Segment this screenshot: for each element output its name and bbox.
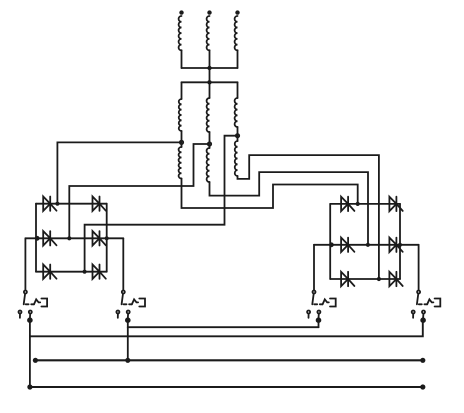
- thyristor VS12: [389, 272, 396, 286]
- switch S3 linkage chevron: [323, 299, 329, 304]
- wire bus1 switch S1 to switch S4: [30, 320, 423, 336]
- switch S4 contact junction dot: [421, 318, 425, 322]
- primary winding LB terminal dot: [207, 10, 211, 14]
- switch S2 actuator bracket: [139, 299, 145, 307]
- switch S1 linkage dashed: [26, 303, 34, 305]
- secondary winding W1 upper half: [181, 82, 183, 99]
- thyristor VS11: [341, 272, 348, 286]
- switch S4 linkage dashed: [419, 303, 427, 305]
- switch S1 left fixed contact: [19, 311, 22, 314]
- switch S2 right fixed contact: [127, 311, 130, 314]
- left bridge negative rail: [35, 204, 37, 272]
- wire left bridge row1: [36, 203, 107, 205]
- wire W1 tap to left bridge row1: [57, 142, 181, 203]
- bus 2: [35, 359, 422, 361]
- wire W1 bottom to right bridge row1: [182, 179, 358, 209]
- node primary star point: [207, 66, 211, 70]
- switch S3 right fixed contact: [317, 311, 320, 314]
- switch S2 linkage chevron: [132, 299, 138, 304]
- wire left bridge output to switch S1: [24, 238, 26, 289]
- secondary winding W2 lower half: [209, 146, 211, 148]
- primary winding LC terminal dot: [235, 10, 239, 14]
- switch S1 actuator bracket: [41, 299, 47, 307]
- switch S4 left fixed contact: [412, 311, 415, 314]
- secondary winding W3 lower half: [237, 137, 239, 141]
- primary winding LB lead wire: [209, 50, 211, 68]
- node bus3 left terminal: [27, 384, 32, 389]
- switch S2 blade: [122, 294, 123, 305]
- switch S2 left fixed contact: [116, 311, 119, 314]
- switch S4 right fixed contact: [422, 311, 425, 314]
- node secondary W3 center tap: [236, 134, 239, 137]
- wire switch S3 stub: [318, 320, 320, 327]
- node bus3 right terminal: [420, 384, 425, 389]
- wire W3 tap to left bridge row3: [85, 136, 238, 272]
- bus 3: [30, 386, 423, 388]
- node bus2 switch S2 junction: [125, 358, 130, 363]
- switch S3 blade: [312, 294, 313, 305]
- switch S1 right fixed contact: [29, 311, 32, 314]
- switch S3 contact junction dot: [317, 318, 321, 322]
- primary winding LA coil: [179, 16, 182, 50]
- node left bridge row2 input: [67, 236, 71, 240]
- primary winding LA lead wire: [181, 50, 183, 68]
- wire left bridge row3: [36, 271, 107, 273]
- switch S1 blade: [24, 294, 25, 305]
- node left bridge negative rail terminal circle: [36, 237, 39, 240]
- node right bridge row2 input: [366, 243, 370, 247]
- switch S1 contact junction dot: [28, 318, 32, 322]
- node right bridge positive rail junction: [398, 243, 402, 247]
- node left bridge row3 input: [83, 270, 87, 274]
- node secondary W2 center tap: [208, 142, 211, 145]
- right bridge positive rail: [399, 204, 401, 279]
- thyristor VS4: [93, 231, 100, 245]
- thyristor VS9: [341, 238, 348, 252]
- wire left bridge output to switch S2: [122, 238, 124, 289]
- wire star link: [209, 68, 211, 82]
- primary winding LA terminal dot: [179, 10, 183, 14]
- switch S3 actuator bracket: [330, 299, 336, 307]
- thyristor VS5: [43, 265, 50, 279]
- primary winding LC lead wire: [237, 50, 239, 68]
- wire right bridge row1: [330, 203, 400, 205]
- wire switch S2 to switch S3 crossbar: [128, 326, 319, 328]
- wire left bridge row2: [25, 237, 123, 239]
- node right bridge row1 input: [356, 202, 360, 206]
- switch S4 moving contact circle: [417, 291, 420, 294]
- primary winding LB coil: [207, 16, 210, 50]
- wire secondary common bus: [182, 81, 238, 83]
- wire right bridge output to switch S3: [313, 245, 315, 290]
- wire switch S1 to bus3: [29, 320, 31, 387]
- wire right bridge row3: [330, 278, 400, 280]
- node right bridge row3 input: [377, 277, 381, 281]
- wire W3 bottom to right bridge row3: [238, 155, 379, 279]
- secondary winding W1 lower half: [181, 144, 183, 147]
- thyristor VS7: [341, 197, 348, 211]
- switch S4 linkage chevron: [427, 299, 433, 304]
- primary winding LC coil: [235, 16, 238, 50]
- node bus2 right terminal: [420, 358, 425, 363]
- secondary winding W2 upper half: [209, 82, 211, 98]
- wire right bridge output to switch S4: [418, 245, 420, 290]
- thyristor VS2: [93, 197, 100, 211]
- wire W2 tap to left bridge row2: [69, 144, 209, 238]
- thyristor VS10: [389, 238, 396, 252]
- switch S2 contact junction dot: [126, 318, 130, 322]
- left bridge positive rail: [106, 204, 108, 272]
- switch S3 linkage dashed: [314, 303, 322, 305]
- thyristor VS3: [43, 231, 50, 245]
- thyristor VS8: [389, 197, 396, 211]
- node secondary common point: [207, 80, 211, 84]
- wire switch S2 to bus2: [127, 320, 129, 360]
- node secondary W1 center tap: [180, 141, 183, 144]
- right bridge negative rail: [329, 204, 331, 279]
- node bus2 left terminal: [33, 358, 38, 363]
- wire W2 bottom to right bridge row2: [210, 172, 369, 245]
- switch S1 linkage chevron: [34, 299, 40, 304]
- switch S3 left fixed contact: [307, 311, 310, 314]
- switch S4 blade: [417, 294, 418, 305]
- switch S3 moving contact circle: [313, 291, 316, 294]
- switch S4 actuator bracket: [435, 299, 441, 307]
- thyristor VS1: [43, 197, 50, 211]
- switch S2 moving contact circle: [122, 291, 125, 294]
- wire right bridge row2: [314, 244, 419, 246]
- switch S2 linkage dashed: [124, 303, 132, 305]
- node right bridge negative rail terminal circle: [330, 243, 333, 246]
- node left bridge positive rail junction: [105, 236, 109, 240]
- wire primary star bus: [182, 67, 238, 69]
- switch S1 moving contact circle: [24, 291, 27, 294]
- thyristor VS6: [93, 265, 100, 279]
- node left bridge row1 input: [55, 202, 59, 206]
- secondary winding W3 upper half: [237, 82, 239, 98]
